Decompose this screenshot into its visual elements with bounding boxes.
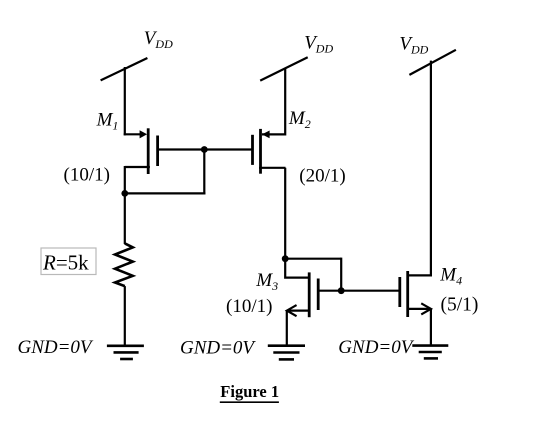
- wire M3 source to ground: [286, 311, 288, 346]
- transistor M2: [253, 129, 286, 174]
- label box R=5k: [41, 248, 96, 275]
- svg-text:VDD: VDD: [304, 33, 333, 56]
- ground symbol right: [412, 346, 448, 359]
- label (5/1) for M4: [441, 295, 479, 316]
- VDD supply 2 slash: [260, 57, 308, 80]
- label (20/1) for M2: [299, 166, 345, 187]
- node dot M1 drain: [121, 190, 128, 197]
- svg-text:VDD: VDD: [399, 34, 428, 57]
- svg-text:Figure 1: Figure 1: [220, 382, 279, 401]
- wire gate feedback horizontal: [124, 192, 206, 194]
- transistor M4: [400, 271, 431, 317]
- label GND=0V left: [18, 337, 94, 358]
- wire node to M3 gate vertical: [340, 258, 342, 291]
- wire gate feedback vertical: [203, 150, 205, 195]
- wire M2 drain down to node: [284, 168, 286, 259]
- svg-text:(10/1): (10/1): [64, 165, 110, 186]
- wire node to M3 gate horizontal: [285, 258, 341, 260]
- wire resistor to ground: [124, 286, 126, 346]
- label (10/1) for M1: [64, 165, 110, 186]
- label (10/1) for M3: [226, 296, 272, 317]
- svg-text:GND=0V: GND=0V: [18, 337, 94, 358]
- wire M1 drain down: [124, 166, 126, 195]
- wire node down to M3 drain: [285, 259, 310, 278]
- node dot M2 drain / M3 drain: [282, 255, 289, 262]
- ground symbol middle: [268, 346, 305, 360]
- caption Figure 1: [220, 382, 279, 402]
- wire VDD3 to M4 drain: [409, 61, 431, 276]
- transistor M1: [124, 128, 158, 174]
- svg-text:GND=0V: GND=0V: [180, 337, 256, 358]
- label M2: [288, 108, 311, 131]
- node dot M3 gate: [338, 287, 345, 294]
- node dot gate bus: [201, 146, 208, 153]
- wire M3 gate bus to M4 gate: [320, 290, 400, 292]
- svg-text:(10/1): (10/1): [226, 296, 272, 317]
- svg-text:M2: M2: [288, 108, 311, 131]
- wire M4 source to ground: [430, 309, 432, 346]
- label GND=0V right: [338, 337, 414, 358]
- label GND=0V middle: [180, 337, 256, 358]
- wire VDD1 to M1 source: [124, 67, 126, 135]
- svg-text:VDD: VDD: [144, 28, 173, 51]
- label M4: [439, 264, 462, 287]
- transistor M3: [287, 272, 318, 317]
- svg-text:R=5k: R=5k: [42, 251, 89, 275]
- wire VDD2 to M2 source: [262, 68, 285, 134]
- svg-text:M1: M1: [96, 110, 119, 133]
- wire M1 gate to M2 gate: [158, 148, 253, 150]
- VDD supply 1 label: [144, 28, 173, 51]
- ground symbol left: [107, 346, 144, 359]
- VDD supply 1 slash: [101, 58, 148, 80]
- label M1: [96, 110, 119, 133]
- svg-text:GND=0V: GND=0V: [338, 337, 414, 358]
- svg-text:(5/1): (5/1): [441, 295, 479, 316]
- VDD supply 3 label: [399, 34, 428, 57]
- svg-text:(20/1): (20/1): [299, 166, 345, 187]
- resistor R: [115, 243, 133, 286]
- svg-text:M4: M4: [439, 264, 462, 287]
- VDD supply 2 label: [304, 33, 333, 56]
- VDD supply 3 slash: [409, 50, 456, 75]
- svg-text:M3: M3: [255, 270, 278, 293]
- label M3: [255, 270, 278, 293]
- wire M1 drain to resistor: [124, 193, 126, 244]
